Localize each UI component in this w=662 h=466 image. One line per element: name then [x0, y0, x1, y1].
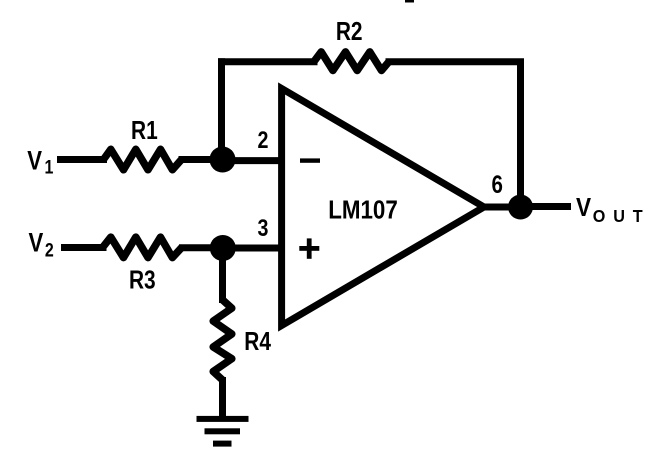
inverting input marker (minus) [300, 158, 320, 162]
junction: inverting input node [210, 147, 236, 173]
non-inverting input marker (plus) [299, 238, 319, 258]
resistor R3 [103, 237, 182, 258]
junction: non-inverting input node [210, 235, 236, 261]
junction: output node [508, 195, 533, 220]
svg-text:6: 6 [491, 170, 502, 198]
wire R4 to ground [219, 377, 226, 418]
wire V1 to R1 [57, 156, 107, 163]
svg-text:R4: R4 [244, 327, 271, 355]
node V1 [27, 146, 53, 177]
wire V2 to R3 [61, 244, 107, 251]
svg-text:2: 2 [45, 239, 54, 261]
cropped text fragment at top edge [405, 0, 414, 3]
wire op-amp output to output junction [483, 204, 521, 211]
ground [197, 416, 249, 447]
node V2 [29, 229, 54, 261]
wire R3 to non-inverting junction [179, 244, 223, 251]
svg-text:V: V [576, 193, 592, 222]
svg-text:1: 1 [45, 156, 54, 178]
wire pin 3 (junction to op-amp) [226, 245, 282, 252]
wire junction down to R4 [219, 248, 226, 303]
node VOUT [576, 193, 651, 226]
svg-text:2: 2 [258, 126, 269, 153]
wire feedback rail right segment and drop to output node [386, 62, 521, 207]
wire feedback rail left segment [218, 58, 318, 65]
op-amp LM107 triangle [282, 89, 484, 326]
svg-text:V: V [29, 229, 44, 259]
wire output junction to VOUT [521, 203, 572, 210]
resistor R4 [213, 300, 232, 380]
svg-text:R3: R3 [129, 265, 156, 293]
wire junction up to feedback rail [218, 58, 225, 159]
svg-text:OUT: OUT [593, 206, 651, 226]
wire R1 to inverting junction [179, 156, 224, 163]
resistor R2 [314, 52, 389, 71]
svg-text:3: 3 [258, 214, 269, 241]
resistor R1 [104, 149, 182, 170]
svg-text:R2: R2 [336, 17, 363, 45]
svg-text:R1: R1 [131, 116, 158, 144]
svg-text:LM107: LM107 [328, 196, 398, 225]
svg-text:V: V [27, 146, 42, 176]
wire pin 2 (junction to op-amp) [226, 157, 282, 164]
